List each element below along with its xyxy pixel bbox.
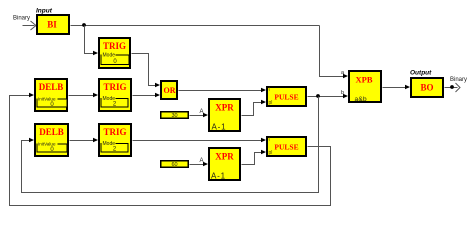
svg-text:pl: pl [269, 150, 273, 156]
wire down right side to XPB a input [320, 26, 347, 77]
wire XPR2 output to PULSE2 pl input [242, 153, 265, 165]
constant box 60 [161, 161, 189, 168]
svg-text:pl: pl [269, 100, 273, 106]
svg-text:Binary: Binary [450, 77, 467, 83]
block TRIG3 [99, 124, 131, 156]
wire XPR1 output to PULSE1 pl input [242, 103, 265, 116]
block PULSE2 [267, 137, 306, 157]
wire TRIG1 output to OR input 1 [132, 54, 159, 86]
wire DELB3 output to TRIG3 [70, 140, 97, 142]
wire BI output to corner (319,25) [71, 25, 320, 27]
svg-text:A-1: A-1 [211, 172, 226, 181]
arrow into XPR2 [203, 162, 208, 166]
svg-text:b: b [341, 90, 344, 96]
arrow into OR input2 [155, 93, 160, 97]
svg-text:BO: BO [420, 83, 433, 93]
svg-text:a&b: a&b [355, 96, 368, 103]
svg-text:TRIG: TRIG [103, 127, 126, 137]
wire DELB2 output to TRIG2 [69, 95, 97, 97]
block TRIG1 [99, 38, 130, 68]
svg-text:A-1: A-1 [212, 123, 227, 132]
arrow into OR input1 [155, 83, 160, 87]
svg-text:DELB: DELB [39, 127, 64, 137]
wire TRIG3 output to PULSE2 t input [133, 140, 265, 142]
svg-text:A: A [200, 109, 204, 115]
svg-text:OR: OR [164, 86, 176, 95]
arrow into PULSE2 t [261, 138, 266, 142]
wire TRIG2 output to OR input 2 [133, 95, 159, 97]
svg-text:InitValue: InitValue [38, 142, 56, 147]
svg-text:BI: BI [47, 20, 57, 30]
block BO [411, 78, 443, 97]
wire 60 to XPR2 [190, 164, 207, 166]
wire input to BI with open arrow [23, 21, 37, 30]
arrow into TRIG1 [93, 51, 98, 55]
arrow into BO [405, 85, 410, 89]
svg-text:TRIG: TRIG [103, 41, 126, 51]
arrow into PULSE1 t [261, 88, 266, 92]
svg-text:DELB: DELB [39, 82, 64, 92]
feedback wire PULSE2 out to DELB2 input [10, 96, 331, 206]
svg-text:InitValue: InitValue [38, 97, 56, 102]
junction dot (84,25) [82, 23, 86, 27]
svg-text:60: 60 [171, 162, 177, 168]
svg-text:Output: Output [410, 70, 432, 77]
wire BO output with dot and open arrow [445, 83, 461, 92]
block XPR1 [209, 99, 240, 132]
arrow into PULSE1 pl [261, 100, 266, 104]
wire PULSE1 output to XPB b input [308, 96, 347, 98]
constant box 30 [161, 112, 189, 119]
arrow into XPR1 [203, 113, 208, 117]
block OR [161, 81, 177, 99]
block DELB2 [35, 79, 67, 111]
feedback wire PULSE1 out to DELB3 input [22, 97, 319, 193]
wire branch down to TRIG1 input [85, 26, 97, 54]
svg-text:XPR: XPR [215, 103, 234, 113]
svg-text:A: A [200, 158, 204, 164]
svg-text:TRIG: TRIG [103, 82, 126, 92]
svg-text:Input: Input [36, 8, 53, 15]
block DELB3 [35, 124, 68, 156]
arrow into DELB2 [29, 93, 34, 97]
svg-text:PULSE: PULSE [274, 143, 298, 152]
junction dot (318,96) [316, 94, 320, 98]
svg-text:PULSE: PULSE [274, 93, 298, 102]
wire OR output to PULSE1 t input [179, 90, 265, 92]
block PULSE1 [267, 87, 306, 107]
arrow into XPB b [343, 94, 348, 98]
svg-text:Binary: Binary [13, 16, 30, 22]
arrow into XPB a [343, 74, 348, 78]
arrow into TRIG2 [93, 93, 98, 97]
wire 30 to XPR1 [190, 115, 207, 117]
svg-text:30: 30 [171, 113, 177, 119]
block BI [37, 15, 69, 34]
svg-text:Mode: Mode [103, 53, 116, 59]
block XPB [349, 71, 381, 103]
svg-text:XPR: XPR [215, 152, 234, 162]
block XPR2 [209, 148, 240, 181]
arrow into PULSE2 pl [261, 150, 266, 154]
arrow into DELB3 [29, 138, 34, 142]
svg-text:XPB: XPB [356, 75, 373, 85]
arrow into TRIG3 [93, 138, 98, 142]
wire XPB output to BO [383, 87, 409, 89]
block TRIG2 [99, 79, 131, 111]
